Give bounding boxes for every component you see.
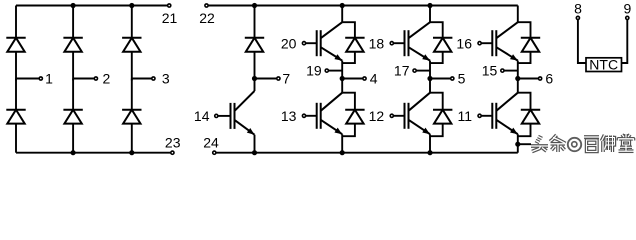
svg-text:9: 9 [624, 0, 632, 16]
svg-text:24: 24 [203, 134, 219, 150]
svg-text:21: 21 [162, 10, 178, 26]
svg-text:14: 14 [194, 108, 210, 124]
svg-text:22: 22 [199, 10, 215, 26]
svg-text:12: 12 [369, 108, 385, 124]
svg-text:8: 8 [574, 0, 582, 16]
svg-text:23: 23 [165, 134, 181, 150]
svg-text:7: 7 [282, 70, 290, 86]
svg-text:13: 13 [281, 108, 297, 124]
svg-text:20: 20 [281, 35, 297, 51]
svg-text:6: 6 [545, 70, 553, 86]
svg-text:17: 17 [394, 63, 410, 79]
svg-text:2: 2 [103, 70, 111, 86]
svg-text:NTC: NTC [589, 57, 618, 73]
svg-text:11: 11 [457, 108, 472, 124]
svg-text:3: 3 [162, 70, 170, 86]
svg-text:16: 16 [456, 35, 472, 51]
svg-text:4: 4 [370, 70, 378, 86]
svg-text:1: 1 [45, 70, 53, 86]
svg-text:15: 15 [482, 63, 498, 79]
svg-text:5: 5 [458, 70, 466, 86]
svg-text:18: 18 [369, 35, 385, 51]
svg-text:19: 19 [306, 63, 322, 79]
